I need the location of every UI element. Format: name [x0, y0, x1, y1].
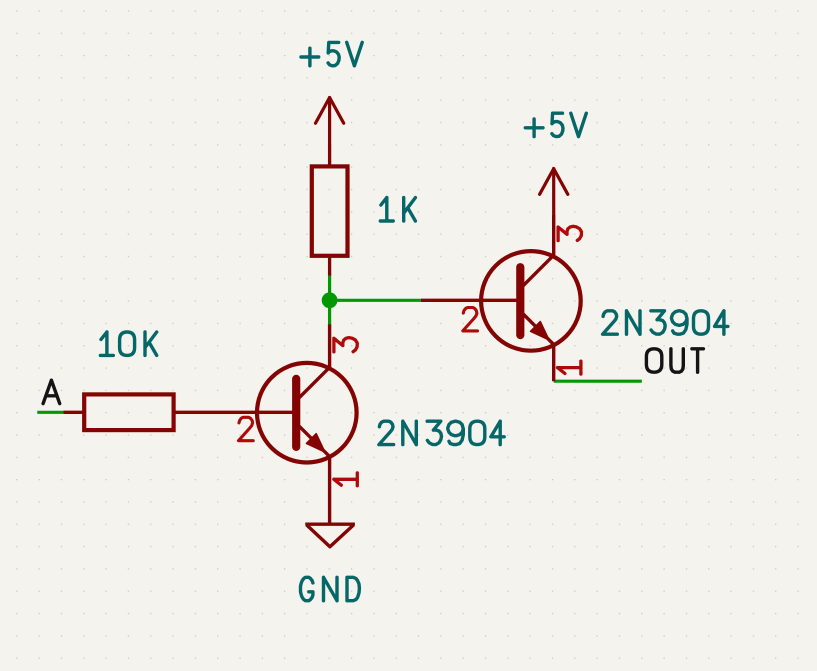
- Q1 value 2N3904: [379, 421, 504, 444]
- power symbol +5V (top, above R1): [316, 98, 344, 145]
- Q1 pin number 1 (rotated): [334, 473, 357, 486]
- Q2 pin number 2: [463, 308, 478, 331]
- value 10K: [100, 332, 156, 355]
- wire OUT: [554, 380, 642, 383]
- Q1 emitter diagonal + arrow + pin: [296, 423, 329, 524]
- transistor Q2 circle: [481, 251, 581, 351]
- ground symbol: [305, 524, 355, 547]
- label +5V (above Q2): [525, 113, 586, 136]
- Q2 emitter diagonal + arrow + pin: [520, 311, 553, 381]
- resistor R2 pins + wire to Q1 base: [64, 411, 297, 414]
- label +5V (top): [301, 42, 362, 65]
- label OUT: [646, 349, 703, 372]
- Q2 collector diagonal + pin: [520, 215, 553, 288]
- wire R1 bottom to Q1 collector (through junction): [328, 274, 331, 325]
- transistor Q1 circle: [257, 363, 357, 463]
- Q1 base bar: [292, 379, 300, 447]
- Q1 pin number 2: [239, 417, 254, 440]
- Q2 base bar: [516, 267, 524, 335]
- Q2 pin number 3 (rotated): [558, 226, 581, 240]
- local label A: [43, 380, 60, 403]
- resistor R1 body: [312, 166, 348, 255]
- value 1K: [380, 198, 415, 221]
- label GND: [301, 577, 360, 600]
- wire A to R2: [37, 411, 63, 414]
- resistor R2 body: [84, 394, 173, 430]
- Q2 base pin: [421, 299, 521, 302]
- Q2 value 2N3904: [603, 311, 728, 334]
- junction node: [322, 292, 338, 308]
- Q2 pin number 1 (rotated): [558, 361, 581, 374]
- wire junction to Q2 base: [330, 299, 421, 302]
- resistor R1 pins: [328, 144, 331, 275]
- Q1 collector diagonal + pin: [296, 324, 329, 400]
- Q1 pin number 3 (rotated): [334, 338, 357, 352]
- power symbol +5V (above Q2): [540, 169, 568, 216]
